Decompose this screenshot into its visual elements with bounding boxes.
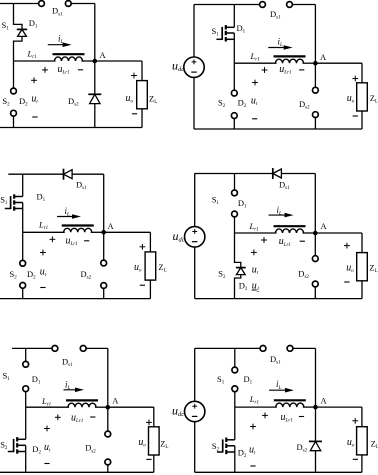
node A (C6): [313, 405, 318, 410]
current arrow iL (C5): [64, 388, 85, 393]
svg-text:Lr1: Lr1: [250, 51, 260, 63]
label D1 (C6): [244, 374, 253, 386]
label A (C3): [108, 221, 115, 231]
wire S1 branch upper (C5): [25, 348, 27, 361]
label ut (C1): [31, 93, 38, 105]
label uo (C2): [347, 93, 355, 105]
svg-text:D1: D1: [244, 374, 253, 386]
label - of ut (C3): [40, 287, 45, 289]
svg-text:Ds1: Ds1: [76, 179, 87, 191]
wire S1 branch lower (C5): [25, 392, 27, 408]
label ut (C5): [44, 442, 51, 454]
label - of ut (C2): [252, 118, 257, 120]
label A (C2): [320, 52, 327, 62]
label D1 (C1): [29, 18, 38, 30]
label - of uLr1 (C4): [300, 240, 305, 242]
label S2 (C4): [218, 269, 226, 281]
label + of ut (C4): [251, 250, 257, 256]
load ZL (C2): [357, 83, 368, 111]
wire S2 branch upper (C2): [233, 63, 235, 90]
label + of ut (C3): [40, 250, 46, 256]
wire load rail lower (C3): [149, 280, 151, 299]
open terminal Ds1 anode (C6): [260, 346, 266, 352]
open terminal Ds1 cathode (C6): [287, 346, 293, 352]
open terminal S1 top (C5): [23, 361, 29, 367]
svg-text:S1: S1: [212, 26, 220, 38]
svg-text:uo: uo: [347, 437, 355, 449]
label S1 (C1): [2, 20, 10, 32]
svg-text:Lr1: Lr1: [27, 48, 37, 60]
node A (C5): [106, 405, 111, 410]
wire inductor to node A (C4): [303, 232, 316, 234]
label Ds2 (C3): [81, 269, 92, 281]
wire node A to load (C4): [315, 232, 362, 234]
label D2 (C3): [27, 269, 36, 281]
open terminal Ds2 top (C5): [105, 431, 111, 437]
label ZL (C2): [370, 93, 378, 105]
svg-text:D1: D1: [32, 374, 41, 386]
inductor Lr1 (C2): [274, 56, 306, 63]
wire source top lead (C2): [193, 5, 195, 58]
inductor Lr1 (C1): [53, 54, 85, 61]
label S2 (C6): [212, 441, 220, 453]
label + of uLr1 (C4): [261, 237, 267, 243]
label S2 (C1): [2, 96, 10, 108]
svg-text:S2: S2: [218, 98, 226, 110]
wire Ds1 to top-right corner (C2): [293, 4, 316, 6]
wire load rail lower (C4): [361, 281, 363, 299]
svg-text:A: A: [100, 50, 107, 60]
svg-text:Ds2: Ds2: [85, 443, 96, 455]
svg-text:uLr1: uLr1: [66, 236, 78, 248]
wire Ds2 to bottom rail (C3): [103, 289, 105, 299]
wire Ds1 to top-right corner (C5): [86, 347, 108, 349]
label ZL (C3): [158, 262, 166, 274]
wire top-left rail to Ds1 (C3): [8, 173, 63, 175]
diode Ds1 (C3): [64, 169, 73, 180]
svg-text:Ds1: Ds1: [279, 180, 290, 192]
wire Ds1 to top-right corner (C3): [72, 173, 104, 175]
wire A to Ds2 (C1): [94, 61, 96, 94]
wire node A to load (C5): [108, 406, 154, 408]
wire inductor to node A (C3): [91, 231, 104, 233]
transistor S1 (C3): [5, 194, 23, 210]
open terminal Ds1 anode (C1): [39, 1, 45, 7]
node A (C3): [101, 230, 106, 235]
wire S1 branch lower (C6): [234, 392, 236, 407]
svg-text:D2: D2: [239, 280, 248, 292]
svg-text:uLr1: uLr1: [279, 64, 291, 76]
label + of ut (C5): [44, 426, 50, 432]
open terminal Ds2 top (C3): [101, 260, 107, 266]
svg-text:S1: S1: [212, 195, 220, 207]
label S2 (C2): [218, 98, 226, 110]
svg-text:ZL: ZL: [369, 263, 377, 275]
label + of uLr1 (C1): [42, 67, 48, 73]
wire mid node to inductor (C1): [14, 60, 56, 62]
wire right rail top (C1): [94, 4, 96, 62]
wire mid node to inductor (C4): [235, 232, 277, 234]
label Ds1 (C4): [279, 180, 290, 192]
open terminal Ds2 bottom (C3): [101, 283, 107, 289]
label - of uo (C5): [146, 458, 151, 460]
node A (C2): [313, 61, 318, 66]
wire Ds2 to bottom rail (C5): [107, 465, 109, 472]
open terminal S1 bottom (C4): [232, 211, 238, 217]
label uo (C4): [346, 263, 354, 275]
wire Ds2 to bottom rail (C2): [314, 118, 316, 129]
svg-text:uo: uo: [138, 437, 146, 449]
wire S2 branch lower (C2): [233, 119, 235, 129]
open terminal S1 top (C6): [232, 367, 238, 373]
wire top-left rail to Ds1 (C6): [195, 347, 260, 349]
label Ds1 (C3): [76, 179, 87, 191]
label Lr1 (C6): [249, 394, 259, 406]
svg-text:Ds2: Ds2: [81, 269, 92, 281]
wire S1 source lead (C3): [22, 203, 24, 233]
label u1 underlined (C4): [252, 281, 260, 293]
current arrow iL (C1): [48, 42, 72, 47]
label Ds1 (C5): [62, 357, 73, 369]
wire S2 drain lead (C5): [25, 407, 27, 439]
wire S2 source lead (C5): [25, 445, 27, 472]
label + of uo (C1): [131, 73, 137, 79]
svg-text:udc: udc: [172, 404, 184, 419]
label ZL (C6): [371, 439, 378, 451]
label Lr1 (C5): [41, 396, 51, 408]
wire S1 drain lead (C2): [233, 5, 235, 28]
wire S2 branch upper (C4): [235, 233, 241, 268]
label S1 (C3): [0, 195, 8, 207]
open terminal S2 bottom (C1): [11, 110, 17, 116]
open terminal Ds2 top (C2): [313, 87, 319, 93]
label ut (C3): [40, 267, 47, 279]
wire inductor to node A (C2): [303, 62, 316, 64]
svg-text:A: A: [320, 52, 327, 62]
label Lr1 (C1): [27, 48, 37, 60]
svg-text:S1: S1: [0, 195, 8, 207]
wire top-left rail to Ds1 (C2): [194, 4, 260, 6]
svg-text:D2: D2: [238, 448, 247, 460]
diode D1 (antiparallel of S1) (C1): [17, 29, 27, 36]
wire top-left rail to Ds1 (C5): [12, 347, 52, 349]
svg-text:Ds2: Ds2: [298, 269, 309, 281]
label uLr1 (C4): [279, 236, 291, 248]
label Ds2 (C5): [85, 443, 96, 455]
label - of uLr1 (C2): [299, 69, 304, 71]
svg-text:D1: D1: [238, 198, 247, 210]
label S1 (C4): [212, 195, 220, 207]
svg-text:Lr1: Lr1: [249, 221, 259, 233]
open terminal Ds1 cathode (C5): [80, 346, 86, 352]
label + of uo (C5): [146, 420, 152, 426]
svg-text:uLr1: uLr1: [58, 64, 70, 76]
open terminal Ds2 bottom (C2): [313, 112, 319, 118]
open terminal S2 top (C3): [20, 260, 26, 266]
wire S1 drain lead (C3): [22, 174, 24, 196]
wire load rail upper (C5): [153, 407, 155, 427]
svg-text:D2: D2: [238, 98, 247, 110]
svg-text:uo: uo: [126, 93, 134, 105]
wire S1 branch upper (C6): [234, 348, 236, 367]
label Ds2 (C1): [68, 96, 79, 108]
current arrow iL (C4): [269, 213, 294, 218]
current arrow iL (C3): [57, 214, 81, 219]
svg-text:uLr1: uLr1: [281, 412, 293, 424]
wire inductor to node A (C5): [95, 406, 108, 408]
diode Ds2 (C1): [88, 94, 101, 103]
wire Ds2 to bottom rail (C4): [314, 287, 316, 299]
wire right rail top (C2): [314, 5, 316, 64]
wire bottom rail (C4): [195, 298, 362, 300]
svg-text:Lr1: Lr1: [41, 396, 51, 408]
diode Ds2 (C6): [309, 441, 322, 450]
label - of uLr1 (C6): [299, 416, 304, 418]
svg-text:Ds1: Ds1: [270, 9, 281, 21]
label ut (C2): [251, 96, 258, 108]
label Lr1 (C3): [38, 220, 48, 232]
svg-text:iL: iL: [58, 33, 64, 45]
diode D2 (antiparallel of S2) (C4): [236, 268, 246, 275]
svg-text:iL: iL: [65, 380, 71, 392]
diode Ds1 (C4): [273, 168, 282, 179]
wire S1 branch upper (C4): [234, 174, 236, 190]
wire Ds1 to top-right corner (C4): [281, 173, 315, 175]
label A (C4): [321, 221, 328, 231]
wire bottom rail (C6): [195, 471, 362, 473]
svg-text:S2: S2: [0, 440, 8, 452]
label + of uLr1 (C5): [55, 414, 61, 420]
svg-text:ZL: ZL: [370, 93, 378, 105]
wire load rail lower (C5): [153, 455, 155, 472]
svg-text:ut: ut: [251, 96, 258, 108]
svg-text:D2: D2: [27, 269, 36, 281]
wire source bottom lead (C6): [194, 422, 196, 473]
wire node A to load (C3): [104, 231, 151, 233]
wire S1 source lead (C2): [233, 33, 235, 63]
load ZL (C1): [137, 81, 148, 109]
wire Ds2 to bottom rail (C6): [315, 451, 317, 473]
wire top-left rail to Ds1 (C1): [0, 3, 39, 5]
label uLr1 (C3): [66, 236, 78, 248]
svg-text:S2: S2: [2, 96, 10, 108]
svg-text:u1: u1: [252, 281, 260, 293]
wire right rail top (C5): [107, 348, 109, 407]
svg-text:A: A: [321, 395, 328, 405]
wire node A to load (C2): [315, 62, 362, 64]
wire S1 branch upper (C1): [14, 4, 23, 30]
svg-text:D1: D1: [237, 23, 246, 35]
svg-text:uLr1: uLr1: [279, 236, 291, 248]
wire right rail top (C4): [314, 174, 316, 234]
svg-text:ZL: ZL: [160, 439, 168, 451]
label - of uLr1 (C1): [78, 69, 83, 71]
label + of ut (C1): [31, 77, 37, 83]
transistor S2 (C6): [217, 438, 235, 455]
label ut (C4): [252, 265, 259, 277]
label iL (C4): [277, 205, 283, 217]
open terminal Ds1 anode (C2): [260, 2, 266, 8]
label A (C5): [112, 396, 119, 406]
wire S2 branch lower (C3): [22, 288, 24, 298]
label D2 (C5): [32, 444, 41, 456]
label - of ut (C1): [32, 116, 37, 118]
wire load rail upper (C4): [361, 233, 363, 253]
wire Ds1 to top-right corner (C1): [71, 3, 95, 5]
label D2 (C4): [239, 280, 248, 292]
label - of ut (C5): [44, 463, 49, 465]
wire S1 branch lower (C1): [14, 36, 23, 61]
wire S2 source lead (C6): [234, 446, 236, 473]
label D2 (C2): [238, 98, 247, 110]
label D1 (C4): [238, 198, 247, 210]
svg-text:A: A: [321, 221, 328, 231]
svg-text:D1: D1: [37, 192, 46, 204]
label A (C1): [100, 50, 107, 60]
label ZL (C5): [160, 439, 168, 451]
label S2 (C5): [0, 440, 8, 452]
wire A to Ds2 (C6): [315, 407, 317, 441]
label S2 (C3): [10, 269, 18, 281]
svg-text:uo: uo: [346, 263, 354, 275]
open terminal Ds2 top (C4): [312, 256, 318, 262]
label iL (C1): [58, 33, 64, 45]
svg-text:ut: ut: [249, 445, 256, 457]
wire bottom rail (C2): [194, 128, 362, 130]
label + of ut (C6): [250, 424, 256, 430]
wire source bottom lead (C4): [194, 247, 196, 299]
svg-text:S1: S1: [217, 374, 225, 386]
label - of uo (C4): [344, 281, 349, 283]
label - of uo (C2): [353, 115, 358, 117]
load ZL (C5): [149, 427, 160, 455]
label - of uLr1 (C3): [84, 240, 89, 242]
voltage source udc (C4): [185, 227, 205, 247]
wire node A to load (C1): [95, 60, 142, 62]
open terminal S2 bottom (C3): [20, 283, 26, 289]
inductor Lr1 (C3): [62, 226, 94, 233]
label - of uLr1 (C5): [90, 416, 95, 418]
label iL (C3): [65, 206, 71, 218]
svg-text:A: A: [108, 221, 115, 231]
svg-text:Ds2: Ds2: [299, 99, 310, 111]
label ZL (C4): [369, 263, 377, 275]
label uLr1 (C1): [58, 64, 70, 76]
svg-text:D2: D2: [19, 96, 28, 108]
label Ds2 (C2): [299, 99, 310, 111]
label Ds1 (C2): [270, 9, 281, 21]
wire Ds1 to top-right corner (C6): [293, 347, 316, 349]
wire source top lead (C6): [194, 348, 196, 401]
label - of ut (C6): [250, 465, 255, 467]
svg-text:udc: udc: [173, 229, 185, 244]
svg-text:Ds1: Ds1: [52, 6, 63, 18]
label uo (C1): [126, 93, 134, 105]
label iL (C6): [276, 379, 282, 391]
label Ds2 (C4): [298, 269, 309, 281]
label + of uo (C3): [140, 244, 146, 250]
svg-text:A: A: [112, 396, 119, 406]
current arrow iL (C2): [268, 45, 292, 50]
open terminal Ds1 cathode (C2): [287, 2, 293, 8]
wire right rail top (C6): [315, 348, 317, 407]
wire S2 branch lower (C4): [235, 275, 241, 299]
label uLr1 (C5): [71, 412, 83, 424]
wire inductor to node A (C1): [82, 60, 95, 62]
wire load rail lower (C6): [361, 455, 363, 472]
svg-text:uo: uo: [134, 262, 142, 274]
inductor Lr1 (C5): [66, 400, 98, 407]
wire load rail upper (C6): [361, 407, 363, 427]
node A (C4): [313, 231, 318, 236]
label Ds1 (C1): [52, 6, 63, 18]
label uLr1 (C6): [281, 412, 293, 424]
label iL (C5): [65, 380, 71, 392]
wire bottom rail (C3): [0, 298, 150, 300]
label uLr1 (C2): [279, 64, 291, 76]
wire load rail lower (C2): [361, 111, 363, 129]
label + of uo (C4): [344, 243, 350, 249]
label uo (C5): [138, 437, 146, 449]
svg-text:S2: S2: [212, 441, 220, 453]
label D1 (C2): [237, 23, 246, 35]
wire S2 branch lower (C1): [13, 116, 15, 127]
wire inductor to node A (C6): [303, 406, 316, 408]
label S1 (C2): [212, 26, 220, 38]
load ZL (C4): [357, 253, 368, 281]
svg-text:uLr1: uLr1: [71, 412, 83, 424]
wire bottom rail (C1): [0, 127, 142, 129]
open terminal S1 top (C4): [232, 190, 238, 196]
label ut (C6): [249, 445, 256, 457]
wire load rail upper (C2): [361, 63, 363, 83]
open terminal S1 bottom (C6): [232, 386, 238, 392]
open terminal S1 bottom (C5): [23, 386, 29, 392]
svg-text:ZL: ZL: [149, 94, 157, 106]
open terminal S2 top (C1): [11, 88, 17, 94]
label Lr1 (C2): [250, 51, 260, 63]
svg-text:S1: S1: [2, 20, 10, 32]
open terminal S2 top (C2): [231, 90, 237, 96]
svg-text:D2: D2: [32, 444, 41, 456]
voltage source udc (C2): [184, 57, 204, 77]
open terminal S2 bottom (C2): [231, 113, 237, 119]
svg-text:ZL: ZL: [371, 439, 378, 451]
svg-text:ut: ut: [31, 93, 38, 105]
label - of uo (C6): [353, 458, 358, 460]
label udc (C6): [172, 404, 184, 419]
label udc (C4): [173, 229, 185, 244]
wire bottom rail (C5): [0, 471, 154, 473]
svg-text:iL: iL: [277, 205, 283, 217]
label uo (C3): [134, 262, 142, 274]
label udc (C2): [172, 59, 184, 74]
wire node A to load (C6): [316, 406, 362, 408]
label D2 (C6): [238, 448, 247, 460]
label uo (C6): [347, 437, 355, 449]
wire load rail lower (C1): [141, 109, 143, 128]
open terminal Ds1 cathode (C1): [65, 1, 71, 7]
load ZL (C3): [145, 252, 156, 280]
wire S2 branch upper (C3): [22, 232, 24, 260]
label A (C6): [321, 395, 328, 405]
open terminal Ds2 bottom (C4): [312, 281, 318, 287]
node A (C1): [93, 59, 98, 64]
label + of uLr1 (C3): [50, 236, 56, 242]
wire A to Ds2 (C4): [314, 233, 316, 256]
svg-text:ut: ut: [40, 267, 47, 279]
label Lr1 (C4): [249, 221, 259, 233]
